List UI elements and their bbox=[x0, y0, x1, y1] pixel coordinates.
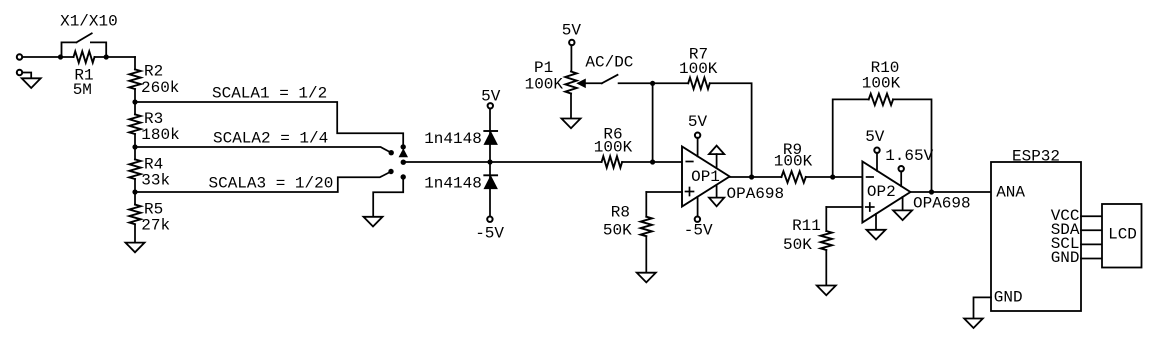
op-amp U1 OP1 bbox=[682, 147, 730, 207]
input terminal J1 bbox=[17, 54, 22, 59]
svg-text:OP2: OP2 bbox=[867, 183, 896, 201]
pin VCC bbox=[1081, 215, 1102, 217]
svg-text:1.65V: 1.65V bbox=[885, 147, 933, 165]
svg-text:100K: 100K bbox=[862, 75, 901, 93]
node bbox=[104, 54, 109, 59]
wire bbox=[403, 161, 490, 163]
svg-text:50K: 50K bbox=[783, 236, 812, 254]
power 5V terminal OP2 bbox=[874, 148, 879, 171]
power 5V terminal OP1 bbox=[695, 133, 700, 157]
svg-text:1n4148: 1n4148 bbox=[424, 130, 482, 148]
svg-text:GND: GND bbox=[994, 288, 1023, 306]
wire bbox=[489, 108, 491, 162]
ground bbox=[126, 243, 145, 253]
wire bbox=[619, 82, 653, 84]
resistor R2 bbox=[129, 69, 140, 102]
node bbox=[132, 189, 137, 194]
wire plus input bbox=[826, 206, 862, 208]
diode D2 bbox=[484, 175, 497, 188]
supply ground OP2 bbox=[867, 214, 886, 240]
switch SW1 bypass bbox=[62, 33, 107, 57]
node bbox=[132, 99, 137, 104]
resistor R8 bbox=[641, 192, 652, 273]
input terminal J2 bbox=[17, 70, 22, 75]
svg-text:X1/X10: X1/X10 bbox=[60, 13, 118, 31]
pin minus OP1 bbox=[686, 161, 693, 163]
wire bbox=[585, 82, 602, 84]
svg-text:50K: 50K bbox=[603, 222, 632, 240]
ground bbox=[637, 273, 656, 283]
wire output OP1 bbox=[730, 176, 752, 178]
svg-text:R11: R11 bbox=[792, 217, 821, 235]
svg-text:OPA698: OPA698 bbox=[727, 185, 785, 203]
resistor R3 bbox=[129, 102, 140, 147]
svg-text:5M: 5M bbox=[73, 81, 92, 99]
node bbox=[487, 159, 492, 164]
selector SW2 contact 4 bbox=[401, 174, 406, 179]
pin SDA bbox=[1081, 229, 1102, 231]
svg-text:OPA698: OPA698 bbox=[913, 194, 971, 212]
selector SW2 contact 3 bbox=[388, 169, 393, 174]
svg-text:SCALA2 = 1/4: SCALA2 = 1/4 bbox=[213, 130, 328, 148]
clamp VL ground OP2 bbox=[893, 197, 912, 220]
potentiometer P1 wiper arrow bbox=[577, 79, 585, 87]
switch SW3 AC/DC bbox=[602, 75, 618, 83]
svg-text:100K: 100K bbox=[679, 60, 718, 78]
module U3 ESP32 bbox=[991, 162, 1081, 311]
svg-text:ANA: ANA bbox=[996, 184, 1025, 202]
svg-text:100K: 100K bbox=[525, 76, 564, 94]
resistor R6 bbox=[602, 156, 653, 167]
diode D1 bbox=[484, 131, 497, 144]
selector SW2 contact 2 bbox=[389, 150, 394, 155]
svg-text:OP1: OP1 bbox=[691, 168, 720, 186]
wire net SCALA2 bbox=[135, 147, 391, 153]
power -5V terminal bbox=[487, 217, 492, 222]
node bbox=[749, 174, 754, 179]
resistor R5 bbox=[129, 192, 140, 243]
svg-text:180k: 180k bbox=[141, 126, 179, 144]
resistor R7 bbox=[653, 78, 710, 89]
resistor R4 bbox=[129, 147, 140, 192]
pin plus OP2 bbox=[866, 203, 874, 211]
wire output OP2 bbox=[910, 191, 931, 193]
pin GND right bbox=[1081, 258, 1102, 260]
selector SW2 wiper arrow bbox=[399, 149, 407, 157]
wire net SCALA3 bbox=[135, 172, 391, 193]
potentiometer P1 bbox=[565, 45, 576, 118]
node bbox=[58, 54, 63, 59]
selector SW2 common node bbox=[401, 160, 406, 165]
pin plus OP1 bbox=[686, 188, 694, 196]
node bbox=[132, 144, 137, 149]
wire bbox=[710, 83, 752, 177]
resistor R1 bbox=[61, 51, 136, 62]
svg-text:R8: R8 bbox=[611, 204, 630, 222]
wire bbox=[23, 73, 32, 79]
wire bbox=[833, 176, 863, 178]
ground bbox=[562, 119, 581, 129]
wire net SCALA1 bbox=[135, 102, 403, 147]
node bbox=[830, 174, 835, 179]
svg-text:AC/DC: AC/DC bbox=[585, 53, 633, 71]
resistor R11 bbox=[821, 207, 832, 286]
wire bbox=[23, 56, 61, 58]
wire bbox=[490, 161, 602, 163]
ground bbox=[364, 217, 383, 227]
wire bbox=[974, 297, 992, 318]
svg-text:LCD: LCD bbox=[1108, 226, 1137, 244]
ground bbox=[964, 319, 983, 329]
svg-text:100K: 100K bbox=[774, 153, 813, 171]
ground bbox=[22, 78, 41, 88]
svg-text:-5V: -5V bbox=[684, 221, 713, 239]
power 5V terminal bbox=[488, 103, 493, 108]
wire bbox=[134, 57, 136, 69]
module U4 LCD bbox=[1102, 204, 1142, 268]
wire to ground bbox=[373, 177, 403, 217]
svg-text:5V: 5V bbox=[481, 88, 501, 106]
clamp VH arrow OP1 bbox=[709, 146, 724, 168]
reference 1.65V terminal bbox=[899, 166, 904, 186]
node bbox=[650, 159, 655, 164]
selector SW2 contact 1 bbox=[401, 144, 406, 149]
svg-text:100K: 100K bbox=[594, 139, 633, 157]
svg-text:260k: 260k bbox=[141, 79, 179, 97]
svg-text:GND: GND bbox=[1051, 249, 1080, 267]
svg-text:5V: 5V bbox=[688, 113, 708, 131]
ground bbox=[817, 286, 836, 296]
pin SCL bbox=[1081, 243, 1102, 245]
pin minus OP2 bbox=[867, 176, 874, 178]
power -5V terminal OP1 bbox=[695, 197, 700, 222]
svg-text:5V: 5V bbox=[562, 22, 582, 40]
wire bbox=[752, 176, 782, 178]
wire bbox=[652, 83, 654, 162]
node bbox=[650, 81, 655, 86]
svg-text:ESP32: ESP32 bbox=[1012, 148, 1060, 166]
svg-text:27k: 27k bbox=[141, 217, 170, 235]
svg-text:SCALA3 = 1/20: SCALA3 = 1/20 bbox=[209, 174, 334, 192]
svg-text:-5V: -5V bbox=[475, 225, 504, 243]
svg-text:P1: P1 bbox=[534, 59, 553, 77]
svg-text:5V: 5V bbox=[865, 128, 885, 146]
svg-text:R2: R2 bbox=[144, 63, 163, 81]
resistor R10 feedback bbox=[833, 94, 932, 192]
wire plus input bbox=[646, 191, 682, 193]
power 5V terminal bbox=[569, 40, 574, 45]
wire bbox=[653, 161, 682, 163]
node bbox=[929, 189, 934, 194]
svg-text:1n4148: 1n4148 bbox=[424, 174, 482, 192]
op-amp U2 OP2 bbox=[862, 162, 910, 223]
wire bbox=[489, 162, 491, 217]
svg-text:SCALA1 = 1/2: SCALA1 = 1/2 bbox=[212, 85, 327, 103]
resistor R9 bbox=[781, 171, 832, 182]
svg-text:33k: 33k bbox=[141, 172, 170, 190]
clamp VL arrow OP1 bbox=[709, 185, 724, 206]
wire net ANA bbox=[932, 191, 992, 193]
